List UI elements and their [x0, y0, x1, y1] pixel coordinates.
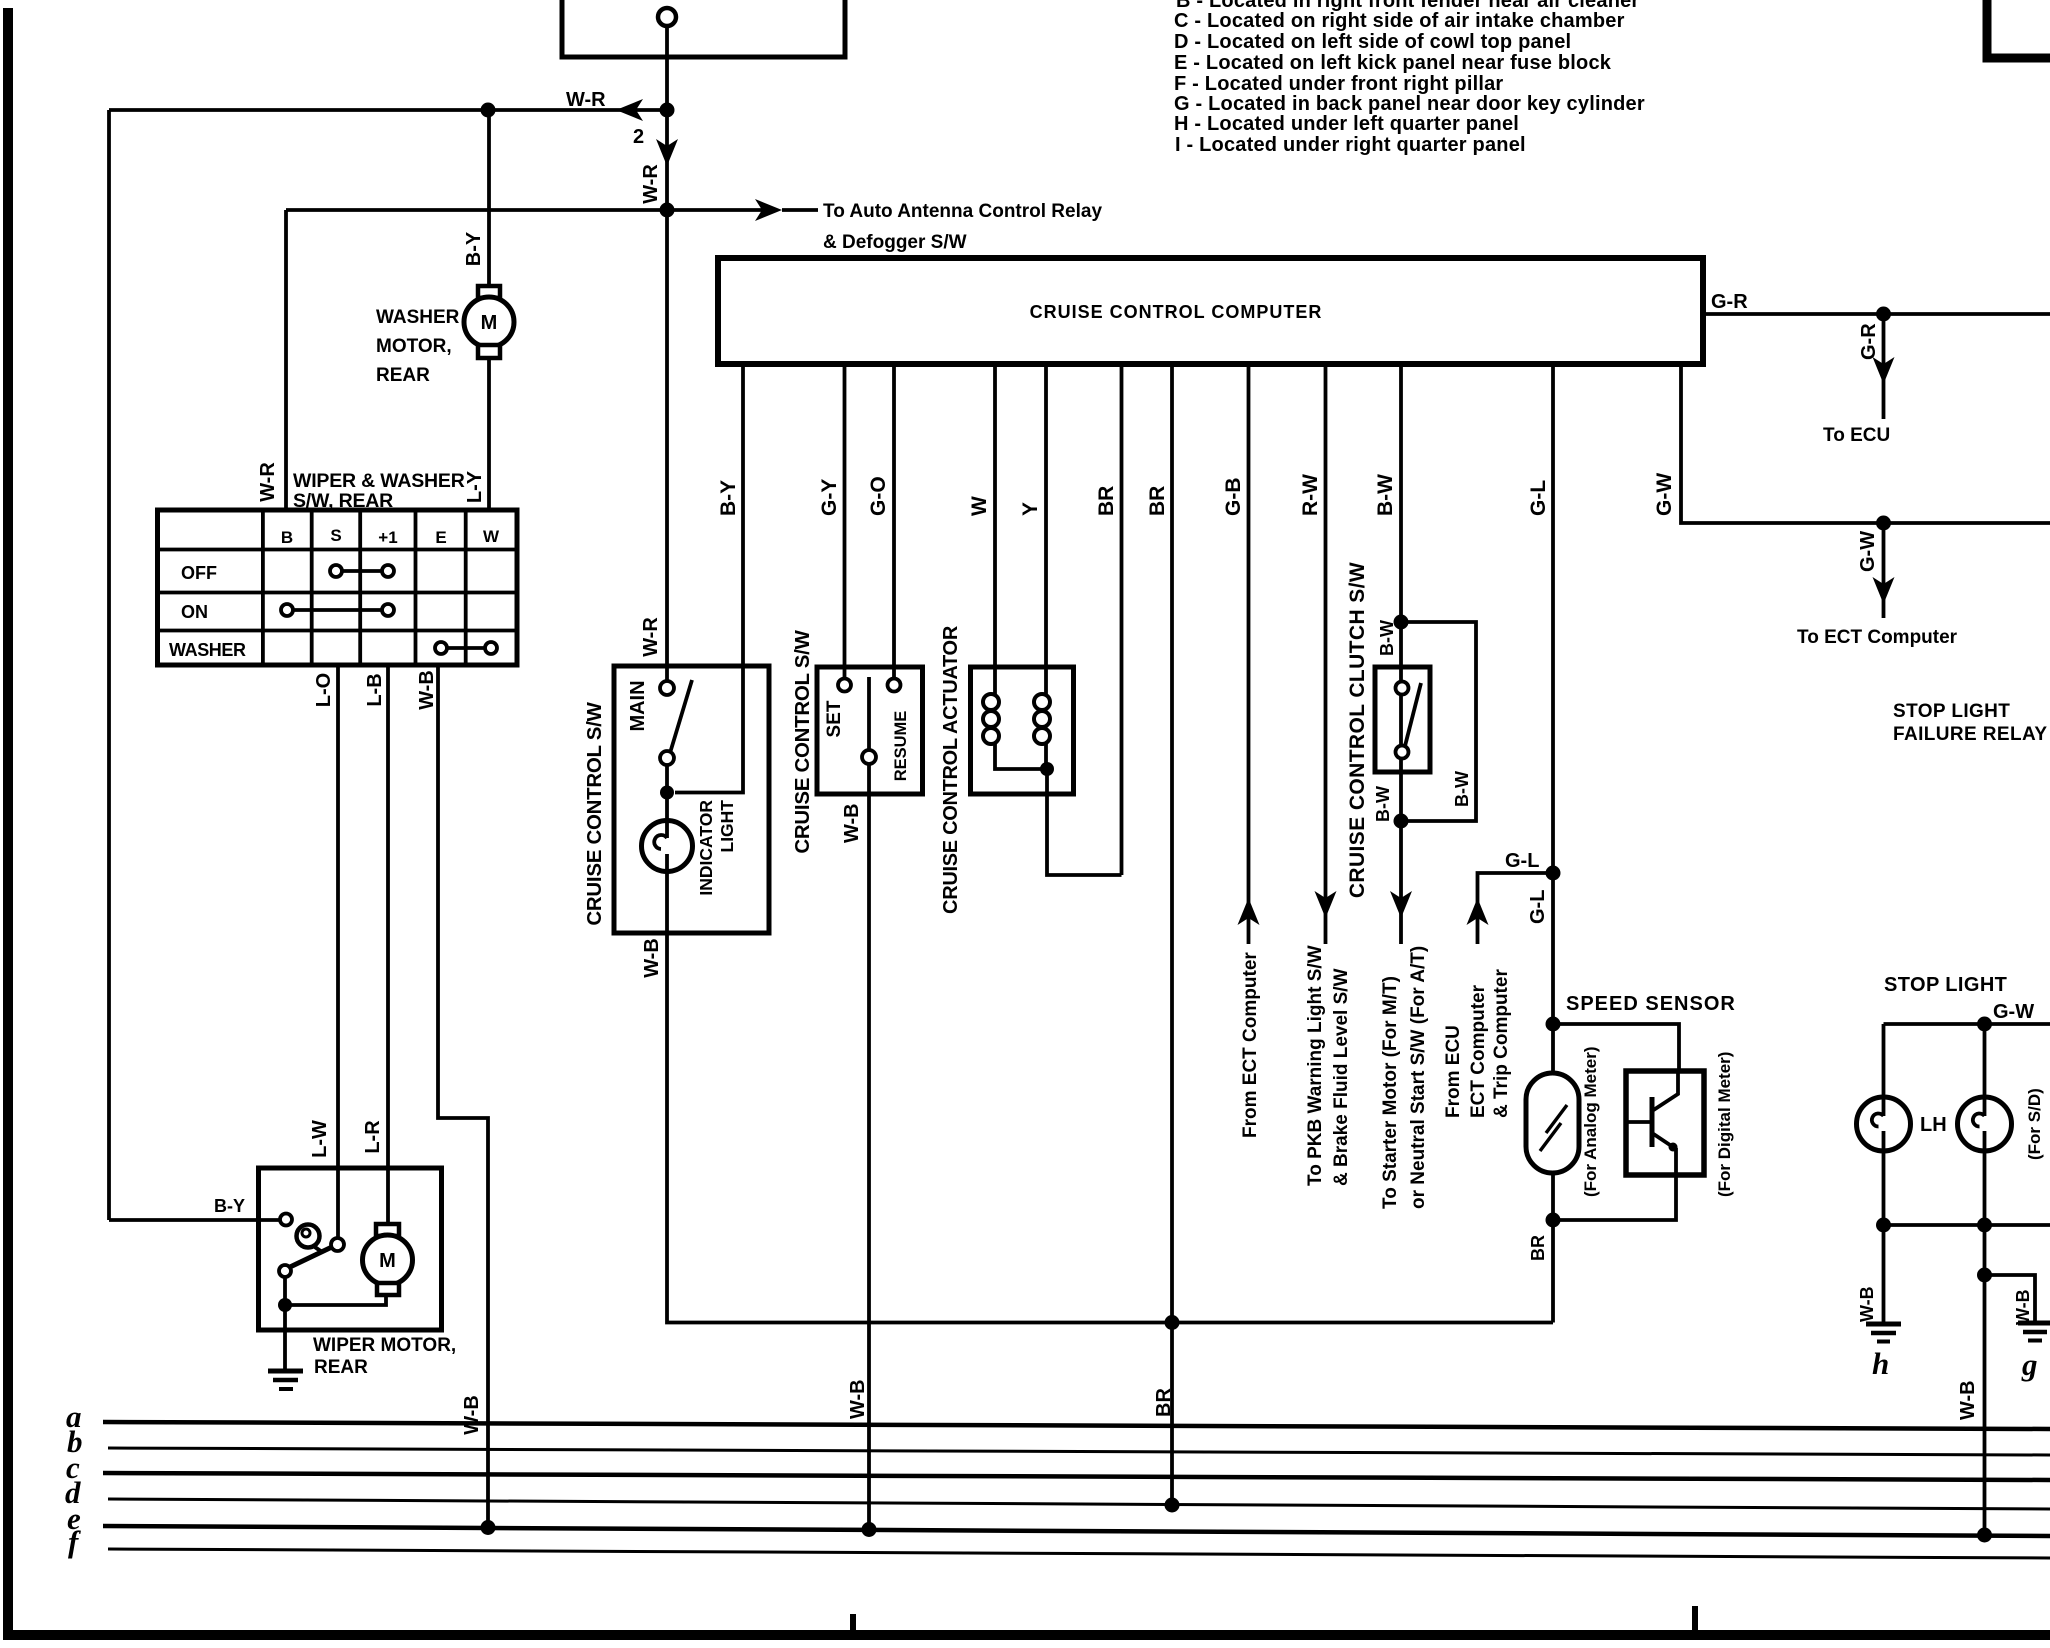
- wiper motor B-Y contact circle: [280, 1214, 292, 1226]
- label From ECU ECT Computer & Trip Computer: [1443, 969, 1512, 1118]
- label WASHER MOTOR REAR: [376, 307, 460, 386]
- label WIPER & WASHER S/W REAR: [293, 470, 465, 512]
- switch SET contact: [838, 679, 851, 692]
- svg-text:& Defogger S/W: & Defogger S/W: [823, 232, 967, 253]
- svg-text:(For S/D): (For S/D): [2025, 1088, 2044, 1160]
- ground symbol g: [2018, 1321, 2050, 1326]
- border tick mark 2: [1692, 1606, 1698, 1632]
- stop light feed wire: [1884, 1022, 2050, 1026]
- indicator light bulb: [642, 821, 693, 872]
- bus line c: [103, 1473, 2050, 1480]
- svg-text:G-L: G-L: [1527, 890, 1549, 924]
- actuator coil 1 bottom wire: [995, 744, 1047, 769]
- svg-text:W-B: W-B: [847, 1379, 869, 1419]
- svg-text:or Neutral Start S/W (For A/T): or Neutral Start S/W (For A/T): [1408, 946, 1429, 1209]
- svg-text:MAIN: MAIN: [627, 680, 649, 731]
- svg-text:L-Y: L-Y: [464, 470, 486, 503]
- svg-text:L-W: L-W: [309, 1120, 331, 1158]
- svg-text:R-W: R-W: [1299, 474, 1322, 516]
- wire W-B main down to bus e: [1983, 1225, 1987, 1535]
- cruise control actuator box: [971, 667, 1074, 794]
- junction dot wiper motor: [278, 1298, 292, 1312]
- wire branch to ground g: [1985, 1275, 2036, 1322]
- svg-text:W-B: W-B: [461, 1395, 483, 1435]
- svg-text:STOP LIGHT: STOP LIGHT: [1884, 974, 2007, 996]
- svg-text:h: h: [1872, 1346, 1889, 1381]
- wire W-R horizontal top: [109, 108, 667, 112]
- svg-text:STOP LIGHT: STOP LIGHT: [1893, 701, 2010, 722]
- svg-text:WIPER MOTOR,: WIPER MOTOR,: [313, 1335, 456, 1356]
- label BR pin 2: [1146, 486, 1169, 516]
- label W-R vertical mid: [640, 164, 662, 204]
- pin B-Y wire (computer to cruise s/w jumper): [675, 364, 743, 793]
- junction dot antenna wire: [660, 203, 675, 218]
- label To Starter Motor / or Neutral Start S/W: [1380, 946, 1429, 1209]
- switch RESUME contact: [888, 679, 901, 692]
- svg-text:G-B: G-B: [1222, 478, 1245, 517]
- svg-text:MOTOR,: MOTOR,: [376, 336, 452, 357]
- svg-text:E - Located on left kick panel: E - Located on left kick panel near fuse…: [1174, 52, 1612, 74]
- junction dot G-L: [1546, 866, 1561, 881]
- stop light bulb S/D: [1958, 1097, 2012, 1151]
- arrow down G-R: [1873, 357, 1895, 384]
- svg-text:BR: BR: [1528, 1235, 1548, 1261]
- label L-Y vertical: [464, 470, 486, 503]
- svg-text:W-B: W-B: [1957, 1380, 1979, 1420]
- wire L-B from table +1 column: [386, 665, 390, 1170]
- wire W-B from table E column: [438, 665, 488, 1522]
- arrow down R-W (To PKB): [1315, 891, 1337, 918]
- clutch switch bottom contact: [1396, 746, 1409, 759]
- svg-text:From ECU: From ECU: [1443, 1025, 1464, 1118]
- wire G-R from computer right: [1703, 312, 2050, 316]
- pin B-W wire (clutch switch): [1399, 364, 1403, 944]
- svg-text:B-W: B-W: [1377, 620, 1397, 656]
- svg-text:M: M: [379, 1250, 396, 1272]
- label W-B ground g: [2013, 1289, 2033, 1325]
- svg-text:W-R: W-R: [566, 89, 606, 111]
- label B-W above clutch box: [1377, 620, 1397, 656]
- wire G-W down to ECT computer: [1882, 523, 1886, 618]
- junction dot W-B branch: [1977, 1268, 1992, 1283]
- label L-B: [364, 673, 386, 706]
- svg-text:G-L: G-L: [1505, 850, 1539, 872]
- label B-Y pin: [717, 480, 740, 516]
- label INDICATOR LIGHT: [696, 800, 737, 896]
- label BR pin 1: [1095, 486, 1118, 516]
- wire junction to motor bottom: [285, 1295, 386, 1305]
- svg-text:CRUISE CONTROL CLUTCH S/W: CRUISE CONTROL CLUTCH S/W: [1346, 562, 1369, 898]
- svg-text:BR: BR: [1153, 1388, 1175, 1417]
- svg-text:To Auto Antenna Control Relay: To Auto Antenna Control Relay: [823, 201, 1102, 222]
- pin G-W wire: [1681, 364, 2050, 523]
- label WIPER MOTOR REAR: [313, 1335, 456, 1378]
- label G-R vertical: [1858, 323, 1880, 360]
- label W-B below table: [416, 670, 438, 710]
- arrow left on W-R wire: [616, 99, 643, 121]
- svg-text:B-W: B-W: [1373, 786, 1393, 822]
- svg-text:INDICATOR: INDICATOR: [696, 800, 716, 896]
- top connector box: [562, 0, 845, 57]
- svg-text:S: S: [330, 526, 341, 545]
- pin G-L wire: [1551, 364, 1555, 1323]
- wire G-R down to ECU: [1882, 314, 1886, 419]
- svg-text:W-B: W-B: [1857, 1286, 1877, 1322]
- table contact OFF row S to +1: [330, 565, 342, 577]
- arrow up G-B (From ECT Computer): [1238, 898, 1260, 925]
- junction dot rail left: [1876, 1218, 1891, 1233]
- washer motor circle: [464, 297, 514, 347]
- wire L-Y washer motor to table: [487, 358, 491, 512]
- svg-text:g: g: [2021, 1347, 2038, 1382]
- table contact WASHER row E to W: [435, 642, 447, 654]
- label R-W pin: [1299, 474, 1322, 516]
- actuator coil 2 wire: [1044, 744, 1048, 769]
- svg-text:SPEED SENSOR: SPEED SENSOR: [1566, 993, 1736, 1015]
- wire W-B down from MAIN box to return rail: [667, 933, 1553, 1323]
- label CRUISE CONTROL S/W vertical (SET box): [791, 629, 814, 853]
- label (For S/D): [2025, 1088, 2044, 1160]
- wire to ground: [283, 1305, 287, 1370]
- svg-text:W-R: W-R: [640, 617, 662, 657]
- svg-text:L-O: L-O: [313, 673, 335, 707]
- svg-text:F - Located under front right: F - Located under front right pillar: [1174, 73, 1503, 95]
- svg-text:REAR: REAR: [314, 1357, 368, 1378]
- label G-B pin: [1222, 478, 1245, 517]
- svg-text:CRUISE CONTROL ACTUATOR: CRUISE CONTROL ACTUATOR: [940, 625, 962, 914]
- wiper motor M circle: [363, 1235, 413, 1285]
- pin G-Y wire: [843, 364, 847, 679]
- border tick mark 1: [850, 1614, 856, 1632]
- svg-text:LH: LH: [1920, 1114, 1947, 1136]
- svg-text:M: M: [481, 312, 498, 334]
- label (For Digital Meter): [1715, 1052, 1734, 1197]
- actuator coil 1: [983, 694, 999, 710]
- border left bar: [3, 8, 13, 1638]
- wiper motor M bottom tab: [377, 1283, 399, 1295]
- arrow down on W-R vertical: [656, 139, 678, 166]
- label W-R above MAIN box: [640, 617, 662, 657]
- svg-text:W-B: W-B: [841, 803, 863, 843]
- speed sensor transistor box (digital): [1626, 1071, 1704, 1175]
- wire to auto antenna horizontal: [286, 208, 762, 212]
- junction dot G-W: [1876, 516, 1891, 531]
- svg-text:WASHER: WASHER: [376, 307, 460, 328]
- svg-text:W-B: W-B: [2013, 1289, 2033, 1325]
- svg-text:G-R: G-R: [1711, 291, 1748, 313]
- clutch switch blade: [1405, 683, 1421, 746]
- label W-B below MAIN box: [641, 938, 663, 978]
- wire stub after arrow: [782, 208, 818, 212]
- cruise control computer box: [718, 258, 1703, 364]
- connector circle: [658, 8, 676, 26]
- washer motor bottom tab: [478, 345, 500, 358]
- pin BR wire 2 (to bus d): [1170, 364, 1174, 1505]
- table row lines: [158, 548, 518, 552]
- svg-text:To Starter Motor (For M/T): To Starter Motor (For M/T): [1380, 976, 1401, 1209]
- wire to S/D bulb: [1983, 1024, 1987, 1098]
- wire W-R into table B column: [284, 210, 288, 512]
- wiper motor blade contact circle: [331, 1238, 344, 1251]
- wiper motor cam: [297, 1225, 320, 1248]
- svg-text:L-R: L-R: [362, 1120, 384, 1154]
- svg-text:B-Y: B-Y: [717, 480, 740, 516]
- svg-text:G-W: G-W: [1653, 473, 1676, 516]
- wire to LH bulb: [1882, 1024, 1886, 1098]
- svg-text:BR: BR: [1146, 486, 1169, 516]
- washer motor M top tab: [478, 286, 500, 298]
- ground symbol wiper motor: [268, 1369, 303, 1374]
- pin R-W wire: [1324, 364, 1328, 944]
- wiper motor rear box: [259, 1168, 442, 1330]
- label MAIN vertical: [627, 680, 649, 731]
- label RESUME: [892, 711, 910, 782]
- switch pole contact circle: [862, 750, 876, 764]
- label W-R vertical above table: [257, 462, 279, 502]
- bus labels: [65, 1399, 83, 1559]
- junction dot BR at bus d: [1165, 1498, 1180, 1513]
- label G-L vertical: [1527, 890, 1549, 924]
- svg-text:CRUISE CONTROL S/W: CRUISE CONTROL S/W: [791, 629, 814, 853]
- junction dot W-R vertical: [660, 103, 675, 118]
- junction dot W-B SET wire on bus e: [862, 1522, 877, 1537]
- svg-text:H - Located under left quarter: H - Located under left quarter panel: [1174, 113, 1519, 135]
- clutch switch top contact: [1396, 682, 1409, 695]
- label G-W vertical at wire: [1857, 531, 1879, 572]
- junction dot clutch top: [1394, 615, 1409, 630]
- table column lines: [261, 510, 265, 665]
- svg-text:ON: ON: [181, 602, 208, 622]
- label From ECT Computer: [1240, 952, 1261, 1138]
- border bottom line: [3, 1630, 2050, 1640]
- wire transistor bottom to junction: [1553, 1175, 1676, 1220]
- pin G-O wire: [892, 364, 896, 679]
- legend text block: [1174, 0, 1645, 156]
- svg-text:W: W: [968, 496, 991, 516]
- transistor symbol: [1650, 1097, 1655, 1147]
- label L-R: [362, 1120, 384, 1154]
- svg-text:To ECU: To ECU: [1823, 425, 1890, 446]
- svg-text:+1: +1: [378, 528, 397, 547]
- bus line f: [108, 1549, 2050, 1558]
- svg-text:(For Digital Meter): (For Digital Meter): [1715, 1052, 1734, 1197]
- label CRUISE CONTROL ACTUATOR vertical: [940, 625, 962, 914]
- wiper & washer switch table outer box: [158, 510, 518, 665]
- table header labels: [169, 526, 500, 660]
- svg-text:BR: BR: [1095, 486, 1118, 516]
- junction dot speed sensor top: [1546, 1017, 1561, 1032]
- svg-text:From ECT Computer: From ECT Computer: [1240, 952, 1261, 1138]
- svg-text:WIPER & WASHER: WIPER & WASHER: [293, 470, 465, 492]
- junction dot clutch bottom: [1394, 814, 1409, 829]
- label B-W pin: [1374, 474, 1397, 516]
- label W-B main near bus: [1957, 1380, 1979, 1420]
- cruise control s/w box (SET/RESUME): [817, 667, 923, 794]
- svg-text:& Brake Fluid Level S/W: & Brake Fluid Level S/W: [1331, 968, 1352, 1186]
- svg-text:LIGHT: LIGHT: [717, 800, 737, 853]
- svg-text:REAR: REAR: [376, 365, 430, 386]
- svg-text:W-B: W-B: [416, 670, 438, 710]
- svg-text:ECT Computer: ECT Computer: [1468, 984, 1489, 1118]
- label W-B ground h: [1857, 1286, 1877, 1322]
- label B-Y vertical washer: [463, 231, 485, 266]
- pin Y wire: [1044, 364, 1048, 694]
- svg-text:Y: Y: [1019, 502, 1042, 516]
- svg-text:WASHER: WASHER: [169, 640, 246, 660]
- junction dot MAIN: [660, 786, 674, 800]
- cruise control clutch s/w box: [1375, 667, 1430, 772]
- svg-text:L-B: L-B: [364, 673, 386, 706]
- switch MAIN bottom contact: [660, 751, 674, 765]
- actuator return wire to BR pin: [1047, 769, 1122, 875]
- wire MAIN to junction: [665, 765, 669, 793]
- pin G-B wire: [1247, 364, 1251, 944]
- wire L-W to blade contact: [336, 1170, 340, 1238]
- wiper motor switch blade: [290, 1246, 334, 1267]
- label G-Y pin: [818, 479, 841, 516]
- svg-text:E: E: [435, 528, 446, 547]
- svg-text:CRUISE CONTROL COMPUTER: CRUISE CONTROL COMPUTER: [1030, 302, 1323, 322]
- cruise control clutch s/w label vertical: [1346, 562, 1369, 898]
- arrow right to auto antenna: [755, 199, 782, 221]
- wire B-Y washer motor feed: [487, 110, 491, 286]
- border top-right corner frame: [1987, 0, 2050, 58]
- arrow down G-W: [1873, 577, 1895, 604]
- svg-text:W: W: [483, 527, 500, 546]
- wiper motor pivot circle: [279, 1265, 291, 1277]
- label Y pin: [1019, 502, 1042, 516]
- junction dot W-R / B-Y washer: [481, 103, 496, 118]
- label G-O pin: [867, 476, 890, 516]
- wire From ECU up-arrow to G-L: [1478, 873, 1554, 944]
- svg-text:I - Located under right quart: I - Located under right quarter panel: [1175, 134, 1526, 156]
- reed switch slashes: [1540, 1123, 1561, 1151]
- switch MAIN blade: [670, 680, 692, 753]
- label W-B near bus (SET wire): [847, 1379, 869, 1419]
- wire L-O from table S column: [336, 665, 340, 1170]
- label (For Analog Meter): [1581, 1047, 1600, 1197]
- bus line d: [108, 1499, 2050, 1509]
- junction dot W-B stop light wire on bus e: [1977, 1528, 1992, 1543]
- label CRUISE CONTROL S/W vertical (MAIN box): [583, 701, 606, 925]
- arrow up From ECU: [1467, 898, 1489, 925]
- bus line b: [108, 1448, 2050, 1455]
- label L-O: [313, 673, 335, 707]
- svg-text:(For Analog Meter): (For Analog Meter): [1581, 1047, 1600, 1197]
- svg-text:2: 2: [633, 126, 644, 148]
- wire W-R vertical from connector down to cruise control s/w: [665, 26, 669, 681]
- svg-text:D - Located on left side of co: D - Located on left side of cowl top pan…: [1174, 31, 1571, 53]
- svg-text:To PKB Warning Light S/W: To PKB Warning Light S/W: [1305, 945, 1326, 1186]
- arrow down B-W (To Starter Motor): [1390, 891, 1412, 918]
- label BR below speed sensor: [1528, 1235, 1548, 1261]
- svg-text:G-L: G-L: [1527, 480, 1550, 516]
- cruise control s/w box (MAIN): [614, 666, 769, 933]
- label To PKB Warning Light S/W & Brake Fluid Level S/W: [1305, 945, 1352, 1186]
- pin W wire: [993, 364, 997, 694]
- svg-text:RESUME: RESUME: [892, 711, 910, 782]
- label W-B below SET box: [841, 803, 863, 843]
- wire pivot to junction: [283, 1277, 287, 1305]
- label G-W pin: [1653, 473, 1676, 516]
- label G-L pin: [1527, 480, 1550, 516]
- svg-text:G-O: G-O: [867, 476, 890, 516]
- bus line a: [103, 1422, 2050, 1429]
- svg-text:FAILURE RELAY: FAILURE RELAY: [1893, 724, 2047, 745]
- pin BR wire (actuator return): [1120, 364, 1124, 875]
- junction dot rail right: [1977, 1218, 1992, 1233]
- stop light bottom rail: [1884, 1223, 2050, 1227]
- clutch bypass wire B-W: [1401, 622, 1476, 821]
- switch pole wire: [867, 677, 871, 750]
- svg-text:G-R: G-R: [1858, 323, 1880, 360]
- ground symbol h: [1866, 1322, 1901, 1327]
- svg-text:CRUISE CONTROL S/W: CRUISE CONTROL S/W: [583, 701, 606, 925]
- svg-text:B-Y: B-Y: [463, 231, 485, 266]
- junction dot stop light feed: [1977, 1017, 1992, 1032]
- svg-text:C - Located on right side of a: C - Located on right side of air intake …: [1174, 10, 1625, 32]
- wire L-R to motor top: [386, 1170, 390, 1224]
- svg-text:B-Y: B-Y: [214, 1196, 245, 1216]
- svg-text:B: B: [281, 528, 293, 547]
- svg-text:& Trip Computer: & Trip Computer: [1491, 969, 1512, 1118]
- wire left vertical long (to wiper motor B-Y): [107, 110, 111, 1220]
- junction dot BR at return wire: [1165, 1315, 1180, 1330]
- stop light bulb LH: [1857, 1097, 1911, 1151]
- wire B-Y into wiper motor: [109, 1218, 280, 1222]
- svg-text:B-W: B-W: [1374, 474, 1397, 516]
- label SET: [824, 700, 845, 737]
- svg-text:G-W: G-W: [1993, 1001, 2034, 1023]
- label BR near bus: [1153, 1388, 1175, 1417]
- svg-text:B-W: B-W: [1452, 771, 1472, 807]
- label STOP LIGHT FAILURE RELAY: [1893, 701, 2047, 745]
- junction dot W-B table wire on bus e: [481, 1520, 496, 1535]
- label To Auto Antenna Control Relay: [823, 201, 1102, 253]
- label L-W: [309, 1120, 331, 1158]
- wiper motor M top tab: [376, 1224, 399, 1236]
- bus line e: [103, 1526, 2050, 1536]
- switch MAIN top contact: [660, 681, 674, 695]
- svg-text:SET: SET: [824, 700, 845, 737]
- svg-text:G - Located in back panel near: G - Located in back panel near door key …: [1174, 93, 1645, 115]
- wire to ground h: [1882, 1225, 1886, 1323]
- speed sensor reed switch (analog): [1526, 1073, 1579, 1173]
- svg-text:W-R: W-R: [257, 462, 279, 502]
- table contact ON row B to +1: [281, 604, 293, 616]
- wire to transistor branch top: [1553, 1024, 1679, 1071]
- svg-text:W-R: W-R: [640, 164, 662, 204]
- wire W-B from pole to bus e: [867, 764, 871, 1528]
- svg-text:OFF: OFF: [181, 563, 217, 583]
- svg-text:To ECT Computer: To ECT Computer: [1797, 627, 1958, 648]
- label B-W below clutch box: [1373, 786, 1393, 822]
- label W pin: [968, 496, 991, 516]
- actuator coil 2: [1034, 694, 1050, 710]
- junction dot speed sensor bottom: [1546, 1213, 1561, 1228]
- svg-text:G-W: G-W: [1857, 531, 1879, 572]
- svg-text:G-Y: G-Y: [818, 479, 841, 516]
- actuator junction dot: [1040, 762, 1054, 776]
- junction dot G-R: [1876, 307, 1891, 322]
- label B-W bypass: [1452, 771, 1472, 807]
- label W-B near bus: [461, 1395, 483, 1435]
- svg-text:W-B: W-B: [641, 938, 663, 978]
